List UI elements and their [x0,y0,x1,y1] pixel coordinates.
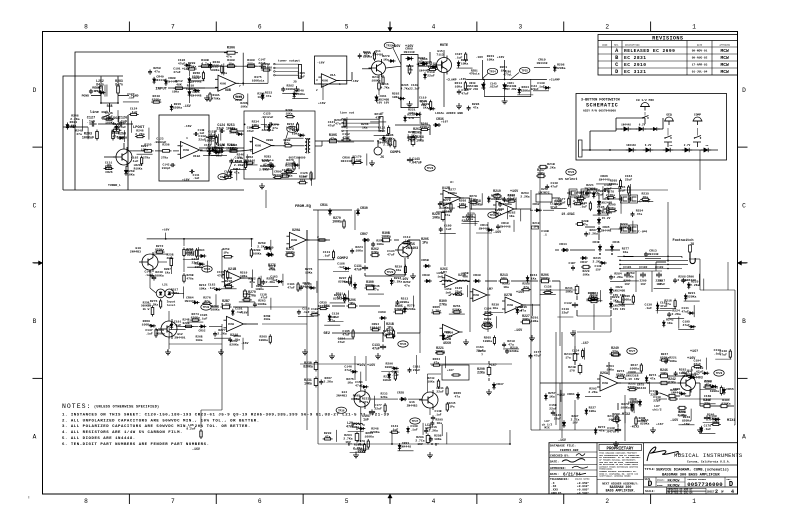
svg-text:100Ka: 100Ka [210,308,219,312]
svg-text:1N4448: 1N4448 [626,144,636,147]
svg-text:6: 6 [217,89,219,92]
svg-text:B*: B* [348,443,352,448]
svg-text:820Ka: 820Ka [229,342,238,346]
svg-text:DATE:: DATE: [550,461,559,464]
svg-text:47uF: 47uF [660,304,668,308]
svg-text:30Ka: 30Ka [522,318,530,322]
svg-text:CR46: CR46 [613,241,620,244]
svg-text:CR5B: CR5B [421,258,429,262]
svg-text:B: B [33,318,37,325]
svg-text:100Ka: 100Ka [540,277,550,281]
svg-text:10Ka: 10Ka [455,84,463,88]
svg-text:100Ka: 100Ka [155,332,164,336]
svg-text:47uF: 47uF [378,129,386,133]
svg-text:2.2Ka: 2.2Ka [149,302,158,306]
svg-text:4mH: 4mH [462,275,467,278]
svg-text:10Ka: 10Ka [127,172,135,176]
svg-text:10Ka: 10Ka [305,270,313,274]
svg-text:820Ka: 820Ka [442,202,451,206]
svg-text:47uF: 47uF [550,184,558,188]
svg-text:22uF: 22uF [618,189,626,193]
svg-text:10Ka: 10Ka [461,62,469,66]
svg-text:1Ka: 1Ka [549,394,555,398]
svg-text:10Ka: 10Ka [376,242,384,246]
svg-text:47uF: 47uF [287,286,295,290]
svg-text:47a: 47a [599,429,605,433]
svg-text:100Ka: 100Ka [332,220,342,224]
svg-text:22Ka: 22Ka [477,371,485,375]
svg-text:820Ka: 820Ka [521,88,530,92]
svg-text:4560: 4560 [220,83,227,86]
svg-text:22uF: 22uF [216,155,223,158]
svg-text:+0.500": +0.500" [577,491,589,495]
svg-text:2.2Ka: 2.2Ka [546,166,555,170]
svg-text:-16V: -16V [317,61,325,65]
svg-text:BASSMAN 300 BASS AMPLIFIER: BASSMAN 300 BASS AMPLIFIER [662,473,720,477]
svg-text:15.2V: 15.2V [602,217,611,220]
svg-text:level: level [167,303,176,307]
svg-text:1mH: 1mH [437,275,442,278]
svg-text:82Ka: 82Ka [668,381,676,385]
svg-text:TP26: TP26 [568,171,575,174]
svg-text:47uF: 47uF [217,273,225,277]
svg-text:2.2Ka: 2.2Ka [677,413,686,417]
svg-text:1Ka: 1Ka [613,298,619,302]
svg-text:1Ka: 1Ka [165,271,170,274]
svg-text:47uF: 47uF [372,347,380,351]
svg-text:47a: 47a [455,394,461,398]
svg-text:47?uL: 47?uL [503,74,512,77]
svg-text:2N44B3: 2N44B3 [336,394,347,397]
svg-text:U27B: U27B [504,294,512,298]
svg-text:2.2Ka: 2.2Ka [324,380,333,384]
svg-text:2.2Ka: 2.2Ka [613,275,622,279]
svg-text:22.2uF: 22.2uF [409,87,420,90]
svg-text:6.2V: 6.2V [645,144,652,147]
svg-text:10Ka: 10Ka [240,274,248,278]
svg-text:6. TEN-DIGIT PART NUMBERS ARE: 6. TEN-DIGIT PART NUMBERS ARE FENDER PAR… [62,443,210,447]
svg-text:MUTE: MUTE [440,44,448,48]
svg-text:4.7Ka: 4.7Ka [401,87,410,90]
svg-text:CR4B: CR4B [593,241,600,244]
svg-text:-16V: -16V [558,438,566,442]
svg-text:TP30: TP30 [203,306,210,309]
svg-text:47a: 47a [266,94,272,98]
svg-text:FROM-EQ: FROM-EQ [295,205,312,209]
svg-text:16V: 16V [572,422,577,425]
svg-text:1N4448: 1N4448 [403,50,414,54]
svg-text:D: D [742,87,746,94]
svg-text:4. ALL RESISTORS ARE 1/4W 5% C: 4. ALL RESISTORS ARE 1/4W 5% CARBON FILM… [62,430,183,435]
svg-text:820Ka: 820Ka [333,296,342,300]
svg-text:1Ka: 1Ka [623,250,629,254]
svg-text:2N44B3: 2N44B3 [130,250,141,254]
svg-text:ch1/2: ch1/2 [652,408,661,412]
svg-text:2.2Ka: 2.2Ka [520,195,529,199]
svg-text:1N5240B: 1N5240B [613,304,625,307]
svg-text:22uF: 22uF [476,348,484,352]
svg-text:ENGR:: ENGR: [657,484,664,487]
svg-text:CH 1/2 MIX: CH 1/2 MIX [636,98,654,102]
svg-text:2.2Ka: 2.2Ka [576,201,585,205]
svg-text:PGND: PGND [82,94,90,98]
svg-text:2: 2 [605,23,609,30]
svg-text:2.2Ka: 2.2Ka [259,168,268,172]
svg-text:D: D [33,87,37,94]
svg-text:1N444B: 1N444B [191,94,202,97]
svg-text:-16V: -16V [184,124,192,128]
svg-text:CR61: CR61 [567,392,575,396]
svg-text:100Ka: 100Ka [286,87,295,91]
svg-text:4: 4 [432,23,436,30]
svg-text:4560: 4560 [322,80,329,83]
svg-text:10Ka: 10Ka [286,112,293,115]
svg-text:100Ka: 100Ka [257,302,266,306]
svg-text:100Ka: 100Ka [253,252,262,255]
svg-text:820Ka: 820Ka [192,74,201,78]
svg-text:2.2Ka: 2.2Ka [383,142,392,146]
svg-text:820KBa: 820KBa [637,420,647,423]
svg-text:47uF: 47uF [247,129,255,133]
svg-text:27Ka: 27Ka [143,157,150,160]
svg-text:TITLE:: TITLE: [645,467,656,471]
svg-text:47a: 47a [272,126,278,130]
svg-text:22uF: 22uF [562,310,570,314]
svg-text:+16?: +16? [690,350,698,354]
svg-text:47a: 47a [473,106,479,110]
svg-text:0057736000: 0057736000 [687,481,723,488]
svg-text:-16V: -16V [682,422,690,426]
svg-text:CR30: CR30 [360,206,368,210]
svg-text:820Ka: 820Ka [619,225,628,229]
svg-text:6/21/04: 6/21/04 [563,472,581,477]
svg-text:1Ka: 1Ka [396,268,402,272]
svg-text:10Ka: 10Ka [537,172,545,176]
svg-text:10Ka: 10Ka [416,139,424,143]
svg-text:100Ka: 100Ka [622,298,631,302]
svg-text:4560: 4560 [228,323,235,326]
svg-text:820Ka: 820Ka [170,291,179,295]
svg-text:7113: 7113 [436,53,443,56]
svg-text:2: 2 [715,489,718,495]
svg-text:47a: 47a [154,70,160,74]
svg-text:MCW: MCW [721,62,730,68]
svg-text:EC 2910: EC 2910 [624,62,646,68]
svg-text:22uF: 22uF [427,73,435,77]
svg-text:47a: 47a [354,397,360,401]
svg-text:U21B: U21B [228,268,236,272]
svg-text:.1uF: .1uF [455,56,463,60]
svg-text:TP36: TP36 [338,409,345,412]
svg-text:EC 3121: EC 3121 [624,69,646,75]
svg-text:100Ka: 100Ka [490,197,499,201]
svg-text:+16V: +16V [497,55,505,59]
svg-text:1N4448: 1N4448 [536,61,547,65]
svg-text:NOTES:: NOTES: [62,403,91,410]
svg-text:16V: 16V [640,283,645,286]
svg-text:470Ka: 470Ka [212,97,221,100]
svg-text:FENTRI.DBF: FENTRI.DBF [560,448,579,452]
svg-text:1Ka: 1Ka [362,126,368,130]
svg-text:TUNER_L: TUNER_L [108,183,121,187]
svg-text:820Ka: 820Ka [338,279,347,283]
svg-text:+CLAMP: +CLAMP [549,79,560,82]
svg-text:C1B?: C1B? [569,262,576,265]
svg-text:2.2Ka: 2.2Ka [690,283,699,287]
svg-text:820Ka: 820Ka [509,349,518,353]
svg-text:SCHEMATIC: SCHEMATIC [586,103,618,109]
svg-text:4560: 4560 [291,239,298,242]
svg-text:1Ka: 1Ka [509,214,515,218]
svg-text:47a: 47a [637,212,643,216]
svg-text:.1uF: .1uF [193,177,200,180]
svg-text:MIX1: MIX1 [727,419,735,423]
svg-text:09-NOV-01: 09-NOV-01 [692,50,708,53]
svg-text:line out: line out [340,111,355,115]
svg-text:1N4448: 1N4448 [647,252,658,256]
svg-text:B*: B* [435,443,439,448]
svg-text:10Ka: 10Ka [606,367,614,371]
svg-text:2.2Ka: 2.2Ka [671,312,680,316]
svg-text:1Pa: 1Pa [449,405,454,408]
svg-text:CHECKED BY:: CHECKED BY: [550,454,570,457]
svg-text:U20A: U20A [292,229,301,233]
svg-text:1N4448: 1N4448 [621,124,631,127]
svg-text:.1uF: .1uF [127,95,135,99]
svg-text:10Ka: 10Ka [583,273,590,276]
svg-text:1Ka: 1Ka [503,285,509,289]
svg-text:+16?: +16? [656,422,664,426]
svg-text:01-JUL-04: 01-JUL-04 [692,71,708,74]
svg-text:47uF: 47uF [358,443,366,447]
svg-text:1: 1 [692,23,696,30]
svg-text:on select: on select [559,177,578,182]
svg-text:3: 3 [518,498,522,505]
svg-text:820Ka: 820Ka [556,66,565,70]
svg-text:100Ka: 100Ka [210,68,219,72]
svg-text:100Ka: 100Ka [154,274,163,278]
svg-text:820Ka: 820Ka [303,365,313,369]
svg-text:1?a: 1?a [612,350,618,354]
svg-text:2.2Ka: 2.2Ka [70,117,79,121]
svg-text:+16V: +16V [516,291,525,295]
svg-text:100Ka: 100Ka [710,389,719,393]
svg-text:R10Ka: R10Ka [134,167,143,170]
svg-text:2.2Ka: 2.2Ka [353,446,362,450]
svg-text:SCALE:: SCALE: [645,490,655,493]
svg-text:10Ka: 10Ka [428,380,435,383]
svg-text:ZONE: ZONE [602,43,608,46]
svg-text:1Pa: 1Pa [422,241,428,245]
svg-text:4560: 4560 [443,342,451,346]
svg-text:2: 2 [605,498,609,505]
svg-text:PLOTTED:21-JUL-04: PLOTTED:21-JUL-04 [668,492,693,495]
svg-text:CR55: CR55 [726,387,734,391]
svg-text:470a: 470a [269,268,276,271]
svg-text:3: 3 [518,23,522,30]
svg-text:1Ka: 1Ka [383,57,389,61]
svg-text:82Ka: 82Ka [381,396,388,399]
svg-text:OF: OF [721,490,725,493]
svg-text:10Ka: 10Ka [199,286,207,290]
svg-text:47a: 47a [408,116,414,120]
svg-text:CR36: CR36 [436,117,444,121]
svg-text:10Ka: 10Ka [531,319,539,323]
svg-text:1uF: 1uF [363,418,369,422]
svg-text:1: 1 [339,83,341,86]
svg-text:200n: 200n [247,62,255,66]
svg-text:470uLa: 470uLa [469,73,480,76]
svg-text:1Pa: 1Pa [349,302,355,306]
svg-text:1?a: 1?a [565,356,571,360]
svg-text:|: | [28,495,30,499]
svg-text:LOCAL AUDIO GND: LOCAL AUDIO GND [435,111,463,115]
svg-text:10Ka: 10Ka [240,105,247,108]
svg-text:.1uF: .1uF [645,306,653,310]
svg-text:10Ka: 10Ka [660,372,668,376]
svg-text:1Ka: 1Ka [421,103,427,107]
svg-text:47uF: 47uF [407,138,415,142]
svg-text:.1uF: .1uF [302,310,310,314]
svg-text:Corona, California U.S.A.: Corona, California U.S.A. [687,460,731,464]
svg-text:MCW: MCW [721,69,730,75]
svg-text:U10A: U10A [193,155,200,158]
svg-text:U26A: U26A [600,372,609,376]
svg-text:100Ka: 100Ka [630,367,639,371]
svg-text:?: ? [481,353,483,357]
svg-text:MUSICAL INSTRUMENTS: MUSICAL INSTRUMENTS [674,452,743,459]
svg-text:330pF: 330pF [162,167,171,170]
svg-text:2: 2 [316,89,318,92]
svg-text:R256: R256 [162,144,169,147]
svg-text:47uF: 47uF [338,340,346,344]
svg-text:47a: 47a [234,171,240,175]
svg-text:MR: MR [670,144,673,147]
svg-text:CR07: CR07 [360,232,368,236]
svg-text:TOLERANCES:: TOLERANCES: [550,478,569,481]
svg-text:8.2?a: 8.2?a [221,303,231,307]
svg-text:1mH: 1mH [445,291,450,294]
svg-text:1Ka: 1Ka [436,421,442,425]
svg-text:6.2V: 6.2V [639,124,646,127]
svg-text:MCW: MCW [721,48,730,54]
svg-text:1Ka: 1Ka [347,381,353,385]
svg-text:CR31: CR31 [320,203,328,207]
svg-text:+16V: +16V [162,228,170,232]
svg-text:16V 16V: 16V 16V [377,102,389,105]
svg-text:A: A [615,48,619,54]
svg-text:47uF: 47uF [173,70,181,74]
svg-text:100Ka: 100Ka [365,435,374,439]
svg-text:D: D [648,481,653,489]
svg-text:+16?: +16? [441,121,448,124]
svg-text:GE2: GE2 [324,332,330,336]
svg-text:APPROVED:: APPROVED: [550,467,566,470]
svg-text:22uF: 22uF [650,393,657,396]
svg-text:+16V: +16V [405,45,414,49]
svg-text:.047uF: .047uF [410,161,422,165]
svg-text:U09B: U09B [266,139,273,142]
svg-text:CR39: CR39 [473,273,481,277]
svg-text:50n: 50n [501,277,507,281]
svg-text:RELEASED EC 2699: RELEASED EC 2699 [624,48,675,54]
svg-text:ANGLES: ANGLES [551,492,562,495]
svg-text:2.2Ka: 2.2Ka [234,163,243,167]
svg-text:C: C [615,62,618,68]
svg-text:TP25: TP25 [521,70,528,73]
svg-text:TP29: TP29 [387,271,394,274]
svg-text:3: 3 [316,79,318,82]
svg-text:DATE: DATE [697,43,703,46]
svg-text:MR: MR [706,144,709,147]
svg-text:A: A [742,434,746,441]
svg-text:1N5240B: 1N5240B [613,289,625,292]
svg-text:REVISIONS: REVISIONS [652,36,683,42]
svg-text:A: A [33,434,37,441]
svg-text:R306: R306 [227,47,235,51]
svg-text:CR38: CR38 [422,273,430,277]
svg-text:-16V: -16V [192,447,200,451]
svg-text:CR44: CR44 [559,242,567,246]
svg-text:100Ka: 100Ka [255,288,264,291]
svg-text:47a: 47a [329,319,335,323]
svg-text:UNLESS NOTED: UNLESS NOTED [575,478,590,481]
svg-text:3b W: 3b W [143,307,150,311]
svg-text:10Ka: 10Ka [383,332,391,336]
svg-text:+16?: +16? [489,363,497,367]
svg-text:2.2Ka: 2.2Ka [588,390,597,394]
svg-text:EC 2831: EC 2831 [624,55,646,61]
svg-text:TP24: TP24 [489,71,496,74]
svg-text:47uF: 47uF [534,354,542,358]
svg-text:1. INSTANCES ON THIS SHEET: C1: 1. INSTANCES ON THIS SHEET: C120-150,180… [62,414,390,418]
svg-text:47uF: 47uF [342,332,350,336]
svg-text:1Ka: 1Ka [493,306,499,310]
svg-text:+16V: +16V [357,364,366,368]
svg-text:22uF: 22uF [374,407,382,411]
svg-text:7: 7 [171,498,175,505]
svg-text:100Ka: 100Ka [448,191,457,195]
svg-text:09-AUG-02: 09-AUG-02 [692,57,708,60]
svg-text:2N444B: 2N444B [601,229,612,232]
svg-text:.0012uF: .0012uF [261,116,274,119]
svg-text:DATABASE FILE:: DATABASE FILE: [550,444,576,448]
svg-text:10a: 10a [228,62,234,66]
svg-text:22uF: 22uF [198,138,206,142]
svg-text:COMP: COMP [694,114,701,117]
svg-text:100a: 100a [196,339,203,342]
svg-text:B: B [742,318,746,325]
svg-text:47a: 47a [445,213,451,217]
svg-text:100Ka: 100Ka [259,338,268,342]
svg-text:MCW: MCW [721,55,730,61]
svg-text:C: C [742,202,746,209]
svg-text:47a: 47a [521,308,527,312]
svg-text:-16V: -16V [241,341,249,345]
svg-text:TP35: TP35 [400,343,407,346]
svg-text:SCOTTSDALE, ARIZONA 85250: SCOTTSDALE, ARIZONA 85250 [599,475,631,478]
svg-text:tuner output: tuner output [278,59,300,63]
svg-text:47a: 47a [404,283,410,287]
svg-text:820Ka: 820Ka [406,307,415,311]
svg-text:10Ka: 10Ka [355,249,363,253]
svg-text:47a: 47a [363,400,369,404]
svg-text:16V 2CW: 16V 2CW [505,88,517,91]
svg-text:-16?: -16? [581,341,589,345]
svg-text:4: 4 [186,137,188,140]
svg-text:47a: 47a [284,142,289,145]
svg-text:2N44B3: 2N44B3 [407,404,418,407]
